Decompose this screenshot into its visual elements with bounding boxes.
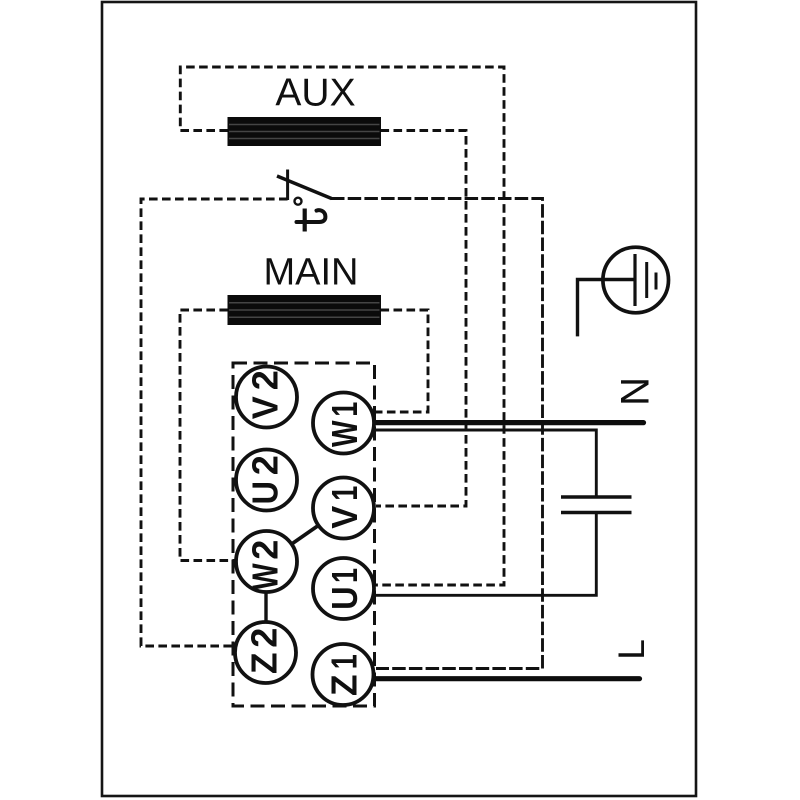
svg-text:W: W xyxy=(324,421,365,448)
wire AUX right terminal to V1 xyxy=(376,131,466,507)
svg-text:2: 2 xyxy=(245,455,286,475)
terminal block outline xyxy=(233,363,375,706)
svg-text:2: 2 xyxy=(244,628,285,648)
svg-text:2: 2 xyxy=(245,370,286,390)
terminal U2 xyxy=(236,450,297,511)
svg-text:1: 1 xyxy=(324,402,365,417)
svg-text:U: U xyxy=(324,586,365,610)
svg-text:Z: Z xyxy=(324,675,365,697)
terminal W1 xyxy=(313,393,374,454)
svg-text:L: L xyxy=(611,639,652,660)
svg-text:1: 1 xyxy=(324,568,365,583)
svg-text:2: 2 xyxy=(245,540,286,560)
link W2-V1 xyxy=(267,508,344,562)
svg-text:U: U xyxy=(245,481,286,505)
capacitor leads xyxy=(373,430,596,496)
svg-text:1: 1 xyxy=(324,654,365,669)
wire switch left to Z2 xyxy=(141,199,288,646)
svg-text:V: V xyxy=(324,506,365,529)
svg-text:N: N xyxy=(612,377,656,406)
auxiliary winding AUX coil xyxy=(228,117,382,146)
terminal Z1 xyxy=(313,644,374,705)
terminal V1 xyxy=(313,478,374,539)
terminal Z2 xyxy=(235,622,296,683)
wire AUX left+top loop to U1 xyxy=(180,67,504,585)
main winding MAIN coil xyxy=(228,295,382,325)
terminal V2 xyxy=(236,367,297,428)
svg-text:AUX: AUX xyxy=(275,72,355,115)
link W2-Z2 xyxy=(264,562,267,653)
svg-text:V: V xyxy=(245,396,286,419)
thermal switch t xyxy=(277,170,332,232)
wire switch right to Z1 xyxy=(331,199,543,669)
earth ground symbol xyxy=(578,247,669,336)
svg-text:Z: Z xyxy=(244,653,285,675)
wire MAIN right to W1 xyxy=(376,310,428,412)
svg-text:W: W xyxy=(245,563,286,590)
svg-text:1: 1 xyxy=(324,486,365,501)
svg-text:MAIN: MAIN xyxy=(264,252,359,294)
terminal U1 xyxy=(313,558,374,619)
terminal W2 xyxy=(236,531,297,592)
neutral wire N xyxy=(374,420,644,425)
wire MAIN left to W2 xyxy=(180,310,237,561)
capacitor C plates xyxy=(561,495,632,498)
line wire L xyxy=(374,676,640,681)
